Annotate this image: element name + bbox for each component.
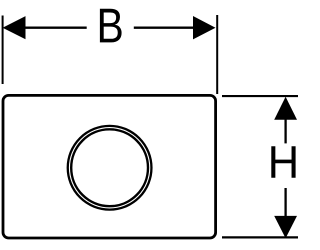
dimension B: right arrowhead [193,16,216,39]
dimension H: top extension tick [222,95,298,97]
dimension H: upper line segment [284,120,286,144]
dimension H: bottom extension tick [222,236,298,238]
dimension B: left extension tick [2,16,4,85]
dimension H: top arrowhead [274,97,297,120]
label B [100,9,122,43]
dimension B: right extension tick [216,15,218,94]
dimension B: left line segment [25,27,87,29]
inner ring of button [71,129,148,206]
dimension H: bottom arrowhead [274,216,297,238]
dimension B: left arrowhead [3,16,26,39]
dimension H: lower line segment [284,188,286,216]
outer ring of button [68,126,152,210]
label H [271,146,295,177]
plate outline [3,95,216,238]
dimension B: right line segment [134,27,194,29]
